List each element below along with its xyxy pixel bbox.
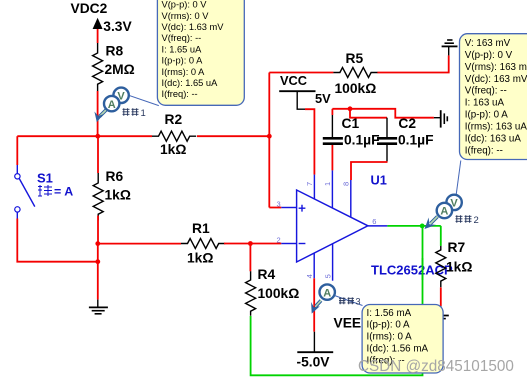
svg-text:I(p-p): 0 A: I(p-p): 0 A — [465, 110, 508, 121]
svg-text:V(rms): 163 mV: V(rms): 163 mV — [465, 62, 527, 73]
svg-text:V(freq): --: V(freq): -- — [465, 86, 507, 97]
resistor R1 — [181, 239, 225, 249]
measurement box probe2 — [460, 34, 527, 160]
label key = A — [38, 185, 52, 196]
svg-text:C1: C1 — [342, 116, 360, 131]
wire S1 bottom to ground rail — [17, 219, 98, 262]
wire pin2 — [281, 243, 296, 245]
VDC2 source V1 — [93, 18, 103, 43]
svg-text:0.1µF: 0.1µF — [344, 133, 380, 148]
svg-text:2MΩ: 2MΩ — [105, 62, 135, 77]
svg-text:V(dc): 163 mV: V(dc): 163 mV — [465, 74, 527, 85]
svg-text:V(freq): --: V(freq): -- — [162, 33, 202, 43]
wire C2 bottom to pin8 — [351, 145, 388, 180]
svg-text:-5.0V: -5.0V — [297, 355, 331, 370]
svg-text:3.3V: 3.3V — [103, 19, 132, 34]
svg-text:1: 1 — [323, 182, 332, 186]
svg-text:4: 4 — [305, 274, 314, 278]
svg-text:I(dc): 1.56 mA: I(dc): 1.56 mA — [367, 344, 429, 355]
probe 1 circles — [104, 88, 129, 112]
switch S1 — [15, 165, 35, 219]
svg-text:R1: R1 — [192, 221, 210, 236]
wire VCC to pin7 — [305, 109, 314, 174]
svg-text:5: 5 — [323, 274, 332, 278]
power VEE bar — [297, 351, 333, 353]
power VCC symbol — [279, 91, 315, 109]
wire top-left horizontal net R2-left — [17, 136, 269, 165]
measurement box probe1 — [157, 0, 244, 105]
svg-text:6: 6 — [372, 217, 376, 226]
wire pin3 — [269, 207, 296, 209]
svg-text:3: 3 — [277, 199, 281, 208]
svg-text:V(p-p): 0 V: V(p-p): 0 V — [162, 0, 208, 10]
wire pin6 output — [368, 225, 441, 227]
wire feedback green — [251, 226, 423, 375]
svg-text:R5: R5 — [346, 51, 364, 66]
svg-text:A: A — [108, 99, 116, 111]
resistor R6 — [93, 136, 103, 243]
svg-text:A: A — [323, 287, 331, 299]
wire pin7 — [313, 175, 315, 199]
probe 2 circles — [437, 195, 462, 219]
node junction R1/R4/pin2 — [248, 241, 253, 246]
svg-text:1kΩ: 1kΩ — [105, 188, 131, 203]
svg-text:I: 163 uA: I: 163 uA — [465, 98, 505, 109]
svg-text:I(rms): 0 A: I(rms): 0 A — [162, 67, 206, 77]
wire pin5 stub — [332, 244, 334, 281]
svg-text:I(rms): 0 A: I(rms): 0 A — [367, 332, 413, 343]
node junction R8/R2/S1/R6 — [95, 134, 100, 139]
svg-text:R8: R8 — [106, 44, 124, 59]
resistor R5 — [333, 68, 377, 78]
svg-text:R6: R6 — [106, 169, 124, 184]
svg-text:V(dc): 1.63 mV: V(dc): 1.63 mV — [162, 22, 225, 32]
svg-text:CSDN @zd845101500: CSDN @zd845101500 — [358, 358, 514, 375]
svg-text:V(rms): 0 V: V(rms): 0 V — [162, 11, 210, 21]
ground bottom-left — [89, 300, 108, 314]
node junction output green — [420, 224, 425, 229]
svg-text:VEE: VEE — [334, 315, 362, 330]
wire pin4 to VEE — [313, 278, 315, 352]
wire pin8 — [350, 180, 352, 217]
svg-text:I: 1.65 uA: I: 1.65 uA — [162, 44, 203, 54]
svg-text:C2: C2 — [398, 116, 416, 131]
svg-text:U1: U1 — [371, 173, 387, 188]
wire R8 bottom to junction — [97, 91, 99, 136]
label probe 1 — [123, 108, 146, 119]
wire C2 top drop — [350, 109, 387, 137]
wire C1 bottom to pin1 — [331, 145, 333, 170]
probe leader line 3 — [335, 296, 363, 306]
wire R1 line — [98, 243, 181, 245]
svg-text:R2: R2 — [165, 112, 183, 127]
measurement box probe3 — [362, 305, 443, 374]
wire junction to pin2 — [250, 243, 281, 245]
wire pin1 — [331, 170, 333, 208]
probe 2 arrow — [425, 217, 438, 230]
svg-text:I(p-p): 0 A: I(p-p): 0 A — [162, 56, 204, 66]
node junction S1 rail — [95, 259, 100, 264]
capacitor C2 — [377, 138, 397, 143]
svg-text:7: 7 — [305, 182, 314, 186]
wire feedback green overlay over label — [422, 258, 424, 280]
svg-text:1kΩ: 1kΩ — [446, 259, 472, 274]
wire R7 top — [440, 226, 442, 246]
svg-text:I(dc): 163 uA: I(dc): 163 uA — [465, 134, 522, 145]
resistor R7 — [436, 246, 446, 287]
probe 3 circle — [320, 284, 335, 299]
svg-text:= A: = A — [54, 185, 73, 199]
svg-text:R4: R4 — [258, 267, 276, 282]
ground sideways (C2) — [434, 110, 447, 127]
svg-text:2: 2 — [277, 235, 281, 244]
resistor R8 — [93, 43, 103, 91]
svg-text:V: 163 mV: V: 163 mV — [465, 38, 511, 49]
svg-text:2: 2 — [474, 215, 479, 226]
svg-text:1: 1 — [141, 108, 146, 119]
svg-text:8: 8 — [342, 182, 351, 186]
node junction R2/pin3 riser — [267, 134, 272, 139]
probe 1 arrow — [94, 110, 106, 123]
ground top-right (inverted) — [442, 40, 458, 46]
svg-text:0.1µF: 0.1µF — [398, 133, 434, 148]
svg-text:1kΩ: 1kΩ — [187, 251, 213, 266]
svg-text:I(freq): --: I(freq): -- — [465, 146, 503, 157]
probe 3 arrow — [311, 301, 321, 314]
label probe 3 — [339, 296, 361, 306]
wire pin4 — [313, 253, 315, 278]
svg-text:I: 1.56 mA: I: 1.56 mA — [367, 308, 412, 319]
probe leader line 1 — [127, 95, 159, 106]
probe leader line 2 — [456, 161, 461, 197]
svg-text:I(dc): 1.65 uA: I(dc): 1.65 uA — [162, 78, 219, 88]
capacitor C1 — [323, 138, 343, 143]
resistor R2 — [152, 131, 196, 141]
svg-text:S1: S1 — [37, 170, 53, 185]
wire to ground bottom-left — [97, 244, 99, 300]
svg-text:5V: 5V — [315, 91, 331, 106]
wire R7 bottom — [440, 287, 442, 306]
svg-text:V(p-p): 0 V: V(p-p): 0 V — [465, 50, 513, 61]
svg-text:I(freq): --: I(freq): -- — [162, 89, 198, 99]
resistor R4 — [246, 244, 256, 316]
svg-text:VDC2: VDC2 — [71, 1, 108, 16]
svg-text:I(p-p): 0 A: I(p-p): 0 A — [367, 320, 410, 331]
op-amp U1 — [297, 190, 368, 262]
wire cap-top net — [332, 109, 434, 137]
node junction R6/R1 — [95, 241, 100, 246]
svg-text:3: 3 — [356, 296, 361, 306]
svg-text:1kΩ: 1kΩ — [160, 142, 186, 157]
svg-text:100kΩ: 100kΩ — [258, 286, 300, 301]
wire riser to pin3 and top line — [269, 73, 333, 208]
svg-text:R7: R7 — [448, 240, 466, 255]
wire R1 right to junction — [224, 243, 250, 245]
node junction cap-top — [348, 106, 353, 111]
wire R5 right to ground — [377, 46, 448, 72]
svg-text:VCC: VCC — [280, 73, 307, 88]
svg-text:I(rms): 163 uA: I(rms): 163 uA — [465, 122, 527, 133]
label probe 2 — [456, 215, 479, 226]
svg-text:A: A — [440, 206, 448, 218]
ground under R7 — [433, 306, 449, 322]
svg-text:100kΩ: 100kΩ — [335, 81, 377, 96]
